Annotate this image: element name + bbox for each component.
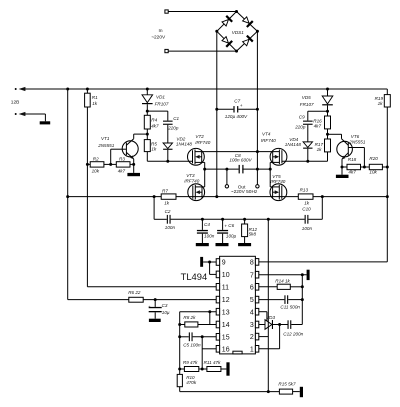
junction ladder / C6 (221, 218, 224, 221)
svg-text:11: 11 (222, 284, 229, 291)
capacitor C10 100n (302, 197, 323, 231)
svg-text:5: 5 (250, 297, 254, 304)
capacitor C7 (217, 99, 258, 119)
capacitor C2 100n (154, 197, 202, 230)
svg-text:R13: R13 (300, 187, 309, 192)
svg-text:470k: 470k (186, 380, 197, 385)
svg-text:100n: 100n (204, 234, 215, 239)
pin 1 box (250, 346, 259, 354)
wire VT4 source to half-bridge mid (269, 162, 271, 187)
junction top rail VD5 (326, 88, 329, 91)
svg-text:2N5551: 2N5551 (97, 143, 115, 148)
svg-text:+: + (224, 224, 227, 229)
junction VT6 emitter / R18 (341, 166, 344, 169)
ground bar R15 (300, 387, 303, 397)
pin 10 box (216, 271, 229, 279)
pin 12 box (216, 296, 229, 304)
resistor R5 (144, 134, 157, 161)
pin 2 box (250, 333, 259, 341)
mosfet VT4 IRF740 (261, 131, 287, 165)
junction left half-bridge mid (203, 168, 206, 171)
resistor R20 (369, 156, 387, 174)
svg-text:R4: R4 (151, 118, 157, 123)
svg-text:100n 600V: 100n 600V (229, 157, 252, 162)
svg-text:In: In (159, 28, 163, 34)
wire pin 12 (R6 line) (68, 299, 217, 301)
svg-text:4k7: 4k7 (348, 169, 356, 174)
junction R8 left (178, 323, 181, 326)
junction C7 right (256, 108, 259, 111)
svg-text:VT5: VT5 (272, 174, 281, 179)
mosfet VT5 IRF740 (270, 174, 287, 201)
wire pin13 to pin14 (209, 312, 211, 325)
junction top rail VD1 (146, 88, 149, 91)
label In ~220V (151, 28, 166, 41)
svg-text:10: 10 (222, 272, 230, 279)
resistor R15 (278, 382, 299, 395)
wire DC bus right (bridge right node down to Out terminal) (256, 31, 258, 184)
mosfet VT3 IRF740 (184, 173, 205, 201)
resistor R8 (183, 315, 198, 327)
wire top rail (25, 88, 387, 90)
wire pin 6 (259, 286, 303, 288)
pin 13 box (216, 308, 229, 316)
junction pin9/pin10 (208, 261, 211, 264)
wire bottom feedback line (180, 391, 280, 393)
pin 16 box (216, 346, 229, 354)
junction pin13 / pin14 riser (208, 310, 211, 313)
svg-text:R8 2k: R8 2k (183, 315, 196, 320)
capacitor C4 100n (197, 219, 215, 243)
capacitor C9 220p (294, 111, 327, 142)
wire In-2 to bridge bottom (168, 50, 236, 52)
resistor R18 (342, 157, 369, 174)
resistor R14 (275, 279, 290, 290)
ground bar C4 (196, 243, 209, 246)
pin 14 box (216, 321, 229, 329)
pin 7 box (250, 271, 259, 279)
svg-text:R6 22: R6 22 (128, 290, 141, 295)
ground bar 0V (40, 121, 51, 124)
svg-text:C9: C9 (299, 115, 305, 120)
terminal In-1 (165, 10, 168, 13)
capacitor C3 10u (148, 300, 170, 319)
junction pin7 / riser (301, 273, 304, 276)
wire pin 16 (202, 337, 216, 369)
svg-text:VT6: VT6 (351, 134, 360, 139)
svg-text:2N5551: 2N5551 (348, 139, 366, 144)
resistor R6 (128, 290, 143, 302)
svg-text:6: 6 (250, 284, 254, 291)
node bridge top (235, 10, 238, 13)
svg-text:~220V 50Hz: ~220V 50Hz (231, 189, 258, 195)
svg-text:12B: 12B (11, 100, 20, 106)
junction C8 line / DC bus right (256, 168, 259, 171)
svg-text:100n: 100n (165, 225, 176, 230)
resistor R10 (177, 374, 197, 391)
svg-text:VDS1: VDS1 (232, 30, 244, 35)
svg-text:9: 9 (222, 260, 226, 267)
pin 6 box (250, 284, 259, 292)
svg-text:1k: 1k (304, 201, 310, 206)
wire pin 8 (259, 261, 388, 263)
resistor R7 (161, 188, 176, 205)
svg-text:R11 47k: R11 47k (204, 360, 221, 365)
svg-text:IRF740: IRF740 (261, 138, 277, 143)
svg-text:C10: C10 (302, 207, 311, 212)
pin 4 box (250, 308, 259, 316)
node bridge left (215, 30, 218, 33)
junction right half-bridge mid (269, 168, 272, 171)
svg-text:R20: R20 (369, 156, 378, 161)
svg-text:1N4148: 1N4148 (176, 141, 193, 146)
svg-text:R15 5k7: R15 5k7 (278, 382, 296, 387)
svg-text:VT1: VT1 (101, 136, 110, 141)
wire source line (gate rail) (68, 196, 388, 198)
capacitor C6 100u (217, 219, 236, 243)
svg-text:5k8: 5k8 (249, 232, 257, 237)
wire pin 2 (259, 336, 269, 338)
junction C5 left (178, 335, 181, 338)
svg-text:R2: R2 (93, 157, 99, 162)
wire riser x=302.3 (301, 275, 303, 325)
svg-text:IRF740: IRF740 (195, 140, 211, 145)
transistor VT1 2N5551 (97, 134, 147, 173)
svg-text:C6: C6 (228, 223, 234, 228)
ground bar R11 (226, 362, 229, 375)
node 12V arrow top (15, 87, 26, 91)
resistor R4 (144, 111, 159, 134)
mosfet VT2 IRF740 (188, 134, 211, 165)
node bridge right (256, 30, 259, 33)
svg-text:4k7: 4k7 (118, 168, 126, 173)
junction R16/R17/VT6 collector (326, 133, 329, 136)
svg-text:2: 2 (250, 334, 254, 341)
svg-text:FR107: FR107 (300, 102, 314, 107)
svg-text:1k: 1k (151, 147, 157, 152)
svg-text:VD3: VD3 (266, 315, 275, 320)
junction C8 line / Out left (225, 168, 228, 171)
svg-text:10µ: 10µ (162, 310, 170, 315)
svg-text:R9 47k: R9 47k (183, 360, 198, 365)
ground bar pin 7 (307, 270, 310, 280)
svg-text:14: 14 (222, 322, 230, 329)
diode VD4 1N4148 (285, 137, 313, 161)
diode VD3 (265, 315, 288, 329)
resistor R19 (375, 95, 391, 107)
svg-text:C4: C4 (204, 222, 210, 227)
svg-text:15: 15 (222, 334, 230, 341)
label Out ~220V 50Hz (231, 184, 258, 195)
pin 15 box (216, 334, 229, 342)
junction source line / C10 riser (321, 195, 324, 198)
wire DC bus left (bridge left node down to source line) (216, 31, 218, 196)
resistor R1 (85, 93, 99, 107)
wire left rail x=67.7 down to R6 line (67, 89, 69, 300)
diode VD2 1N4148 (163, 137, 192, 162)
junction R4/R5/VT1 collector (146, 133, 149, 136)
junction R20 / right rail (386, 166, 389, 169)
svg-text:C3: C3 (162, 303, 168, 308)
transistor VT6 2N5551 (328, 134, 366, 175)
node 0V arrow (15, 112, 26, 116)
svg-text:R1: R1 (92, 95, 98, 100)
pin 11 box (216, 284, 229, 292)
terminal Out left (225, 169, 228, 188)
resistor R3 (111, 157, 134, 174)
junction VD2 / gate line (166, 160, 169, 163)
resistor R12 (242, 219, 258, 243)
junction VT1 base / R2 R3 (109, 163, 112, 166)
wire pin 13 (180, 311, 217, 313)
svg-text:1N4148: 1N4148 (285, 142, 302, 147)
svg-text:VD1: VD1 (156, 94, 165, 99)
svg-text:16: 16 (222, 346, 230, 353)
junction source line / C2 branch (153, 195, 156, 198)
capacitor C5 100n (180, 332, 217, 347)
wire pin 1 (259, 325, 280, 349)
bridge rectifier VDS1 (217, 12, 258, 52)
svg-text:1k: 1k (317, 147, 323, 152)
wire ladder line (202, 218, 304, 220)
junction source line / DC bus left (215, 195, 218, 198)
junction ladder / pin2 riser (267, 218, 270, 221)
svg-text:100µ: 100µ (226, 234, 237, 239)
wire right rail (386, 89, 388, 262)
junction top rail x=67.7 (66, 88, 69, 91)
svg-text:1k: 1k (164, 201, 170, 206)
junction R9 left / R10 (178, 368, 181, 371)
svg-text:C5 100n: C5 100n (183, 342, 201, 347)
ground bar VT1 emitter (127, 173, 140, 176)
svg-text:+: + (240, 103, 243, 108)
wire pin 4 (259, 312, 267, 322)
svg-text:R18: R18 (348, 157, 357, 162)
junction rail/R2 (86, 163, 89, 166)
pin 3 box (250, 321, 259, 329)
svg-text:C1: C1 (173, 116, 179, 121)
resistor R2 (87, 157, 110, 174)
svg-text:100n: 100n (302, 226, 313, 231)
svg-text:13: 13 (222, 309, 230, 316)
svg-text:VD5: VD5 (302, 95, 311, 100)
svg-text:TL494: TL494 (181, 271, 208, 282)
svg-text:FR107: FR107 (155, 102, 169, 107)
capacitor C12 200n (283, 320, 303, 336)
svg-text:4k7: 4k7 (314, 124, 322, 129)
pin 9 box (216, 259, 226, 267)
svg-text:8: 8 (250, 260, 254, 267)
svg-text:IRF740: IRF740 (184, 178, 200, 183)
junction C11 / riser (301, 298, 304, 301)
wire pin2 riser to ladder and bottom line (267, 219, 269, 391)
resistor R13 (298, 187, 313, 205)
svg-text:C11 500n: C11 500n (280, 304, 300, 309)
ground bar R12 (238, 243, 251, 246)
junction VT1 emitter / R3 (132, 163, 135, 166)
svg-text:R14 1k: R14 1k (275, 279, 290, 284)
capacitor C1 220p (147, 111, 179, 143)
wire 0V arrow to ground (25, 114, 45, 121)
junction R6 line / C3 (154, 298, 157, 301)
ground bar VT6 emitter (336, 175, 349, 178)
terminal Out right (256, 185, 259, 188)
capacitor C11 500n (259, 295, 303, 309)
svg-text:4: 4 (250, 309, 254, 316)
wire pin 3 (259, 324, 265, 326)
svg-text:12: 12 (222, 297, 230, 304)
wire pin 10 (210, 262, 217, 274)
pin 8 box (250, 259, 259, 267)
junction source line / right rail (386, 195, 389, 198)
svg-text:7: 7 (250, 272, 254, 279)
svg-text:C2: C2 (165, 209, 171, 214)
junction VD3 / pin1 riser (278, 323, 281, 326)
wire pin 11 (87, 286, 216, 288)
wire pin 14 (180, 324, 217, 326)
junction top rail x=87.4 (86, 88, 89, 91)
wire pin 7 (259, 274, 307, 276)
wire pin 9 (203, 261, 216, 263)
svg-text:220p: 220p (167, 126, 179, 131)
svg-text:~220V: ~220V (151, 34, 166, 40)
wire VT6 base to R18/R20 junction (363, 148, 365, 168)
ground bar C6 (216, 243, 229, 246)
IC U1 TL494 body (181, 256, 256, 354)
svg-text:R7: R7 (162, 188, 168, 193)
wire In-1 to bridge top (168, 11, 236, 13)
node bridge bottom (235, 50, 238, 53)
svg-text:1k: 1k (378, 101, 384, 106)
diode VD5 FR107 (300, 89, 333, 111)
junction source line / left rail (66, 195, 69, 198)
junction R9 right / R11 (201, 368, 204, 371)
svg-text:10k: 10k (92, 168, 100, 173)
svg-text:4k7: 4k7 (151, 124, 159, 129)
svg-text:1: 1 (250, 346, 254, 353)
svg-text:3: 3 (250, 322, 254, 329)
svg-text:VT2: VT2 (195, 134, 204, 139)
svg-text:220p: 220p (294, 124, 306, 129)
wire feedback riser x=179.7 (179, 312, 181, 375)
capacitor C8 (205, 153, 271, 173)
svg-text:1k: 1k (92, 101, 98, 106)
svg-text:+: + (148, 304, 151, 309)
junction drain line / DC bus right (256, 150, 259, 153)
wire gate line VT4 (282, 160, 328, 162)
junction R14 / riser (301, 285, 304, 288)
label 12B (11, 100, 20, 106)
svg-text:120µ 400V: 120µ 400V (225, 114, 248, 119)
junction R18/R20/VT6 base (363, 166, 366, 169)
ground bar pin 9 (200, 257, 203, 267)
wire gate line VT2 (147, 160, 193, 162)
pin 5 box (250, 296, 259, 304)
svg-text:VT3: VT3 (186, 173, 195, 178)
junction C5 right / pin16 riser (201, 335, 204, 338)
resistor R16 (313, 111, 330, 134)
junction VD5/R16/C9 (326, 110, 329, 113)
junction bottom line / pin2 riser (267, 390, 270, 393)
resistor R9 (180, 360, 203, 371)
wire rail x=87.4 down to pin11 line (86, 89, 88, 287)
diode VD1 FR107 (142, 89, 169, 111)
ground bar C3 (149, 319, 161, 322)
junction C7 left (215, 108, 218, 111)
svg-text:10k: 10k (369, 169, 377, 174)
svg-text:VT4: VT4 (262, 131, 271, 136)
svg-text:C12 200n: C12 200n (283, 331, 303, 336)
junction VD4 / gate line right (306, 160, 309, 163)
wire drain line VT2-VT4 (195, 151, 279, 153)
svg-text:R3: R3 (119, 157, 125, 162)
junction ladder / R12 (243, 218, 246, 221)
resistor R17 (315, 134, 331, 161)
terminal In-2 (165, 49, 168, 52)
junction ladder / C4 (201, 218, 204, 221)
svg-text:IRF740: IRF740 (270, 179, 286, 184)
resistor R11 (202, 360, 226, 371)
wire VT2 source to half-bridge mid (204, 162, 206, 187)
junction VD1/R4/C1 (146, 110, 149, 113)
